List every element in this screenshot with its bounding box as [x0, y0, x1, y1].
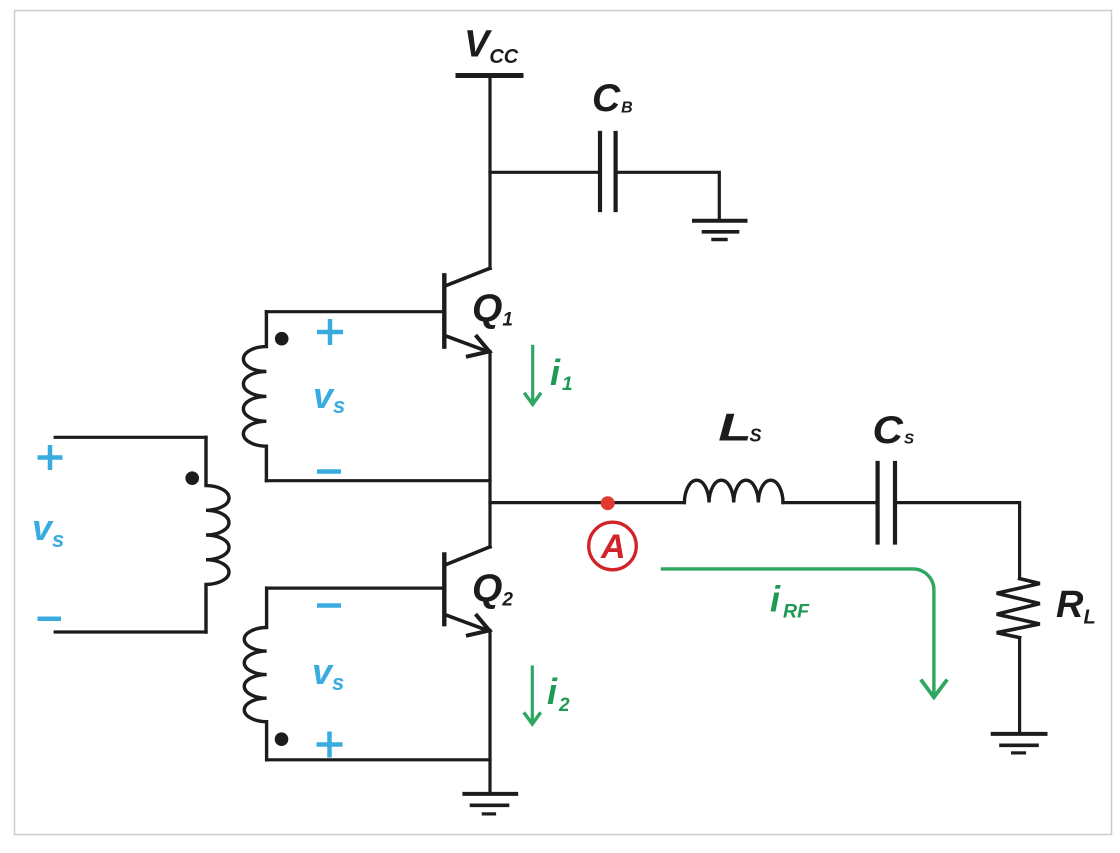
upper secondary winding top wire (Q1 base wire) [266, 310, 442, 313]
upper secondary winding left spine and coil [243, 312, 266, 481]
primary winding bottom wire [55, 630, 206, 633]
phase dot upper secondary [275, 332, 289, 346]
ground at RL [993, 734, 1046, 753]
lower secondary bottom wire [267, 758, 490, 761]
wire LS to CS [783, 501, 876, 504]
wire Vcc node to CB [490, 171, 598, 174]
wire CS to RL [897, 503, 1020, 579]
phase dot primary [185, 471, 199, 485]
svg-text:S: S [904, 431, 914, 448]
output node wire to LS [490, 501, 684, 504]
svg-text:L: L [718, 406, 751, 450]
svg-text:C: C [873, 407, 904, 451]
svg-text:S: S [750, 426, 762, 446]
lower secondary winding top wire (Q2 base wire) [267, 586, 443, 589]
transistor Q1 [444, 268, 490, 356]
wire RL to ground [1018, 638, 1021, 733]
primary winding right spine and coil [206, 437, 229, 632]
ground at Q2 emitter [464, 794, 516, 814]
plus sign primary [38, 445, 63, 470]
upper secondary bottom wire [266, 479, 490, 482]
wire Vcc to Q1 collector [488, 77, 491, 269]
transistor Q2 [444, 547, 490, 636]
minus sign lower secondary [317, 603, 341, 608]
svg-text:A: A [600, 528, 626, 566]
plus sign lower secondary [317, 732, 343, 758]
node A circle [589, 522, 637, 570]
node dot (red) at node A [601, 496, 615, 510]
minus sign primary [38, 616, 62, 621]
current arrow iRF [663, 569, 934, 694]
minus sign upper secondary [317, 469, 341, 474]
wire CB to ground [618, 172, 720, 219]
wire Q2 emitter to ground [488, 631, 491, 792]
inductor LS [684, 480, 783, 502]
current arrow i2 [531, 667, 534, 721]
resistor RL [997, 579, 1040, 638]
phase dot lower secondary [275, 732, 289, 746]
capacitor CS [878, 463, 895, 543]
capacitor CB [600, 133, 616, 210]
ground at CB [694, 221, 746, 240]
plus sign upper secondary [317, 319, 343, 345]
Vcc supply bar [458, 73, 521, 78]
current arrow i1 [531, 346, 534, 401]
wire Q1 emitter down through node to Q2 collector [488, 352, 491, 548]
primary winding top wire [55, 436, 206, 439]
lower secondary winding left spine and coil [244, 588, 266, 760]
